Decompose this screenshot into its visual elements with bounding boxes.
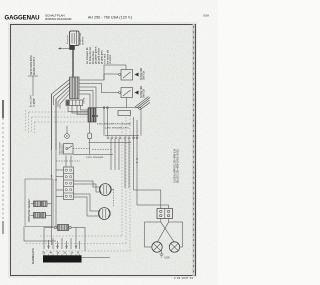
svg-text:BULBS 120V 40W CAND. BASE: BULBS 120V 40W CAND. BASE [177, 149, 180, 183]
svg-text:6-POL: 6-POL [84, 96, 86, 103]
svg-text:USA: USA [165, 257, 170, 260]
svg-text:GLUEHLAMPEN 120V 40W E14: GLUEHLAMPEN 120V 40W E14 [174, 148, 177, 183]
svg-text:2 26 1047 01: 2 26 1047 01 [174, 276, 194, 280]
svg-text:MAINS SUPPLY: MAINS SUPPLY [33, 56, 36, 75]
svg-text:GAGGENAU: GAGGENAU [5, 15, 41, 22]
svg-text:2x sw 1x bl: 2x sw 1x bl [31, 95, 33, 107]
svg-text:USA: USA [203, 14, 209, 18]
svg-text:SCHALTER: SCHALTER [140, 86, 143, 98]
svg-text:KLEMMLEISTE: KLEMMLEISTE [33, 247, 35, 264]
svg-text:6-POL STECKER 6-POL BUCHSE: 6-POL STECKER 6-POL BUCHSE [97, 124, 131, 126]
svg-text:N: N [77, 250, 79, 254]
svg-text:1x gn/ge: 1x gn/ge [33, 97, 35, 107]
svg-text:bl sw ws: bl sw ws [67, 34, 69, 43]
svg-text:VORSCHALTGERAET: VORSCHALTGERAET [28, 198, 31, 222]
svg-text:SWITCH: SWITCH [144, 71, 146, 80]
svg-text:4-POL STECKER 4-POL: 4-POL STECKER 4-POL [105, 128, 130, 130]
svg-text:WIRING DIAGRAM: WIRING DIAGRAM [45, 17, 72, 21]
svg-text:SWITCH: SWITCH [144, 89, 146, 98]
svg-text:PROTECT.: PROTECT. [62, 143, 64, 154]
svg-text:SUPPLY: SUPPLY [83, 36, 85, 45]
svg-text:2-POL STECKER: 2-POL STECKER [86, 157, 104, 159]
svg-text:vi violett: vi violett [108, 55, 112, 64]
svg-text:SCHALTER: SCHALTER [140, 68, 143, 80]
svg-text:AH 250 - 760 USA (120 V.): AH 250 - 760 USA (120 V.) [88, 16, 132, 20]
